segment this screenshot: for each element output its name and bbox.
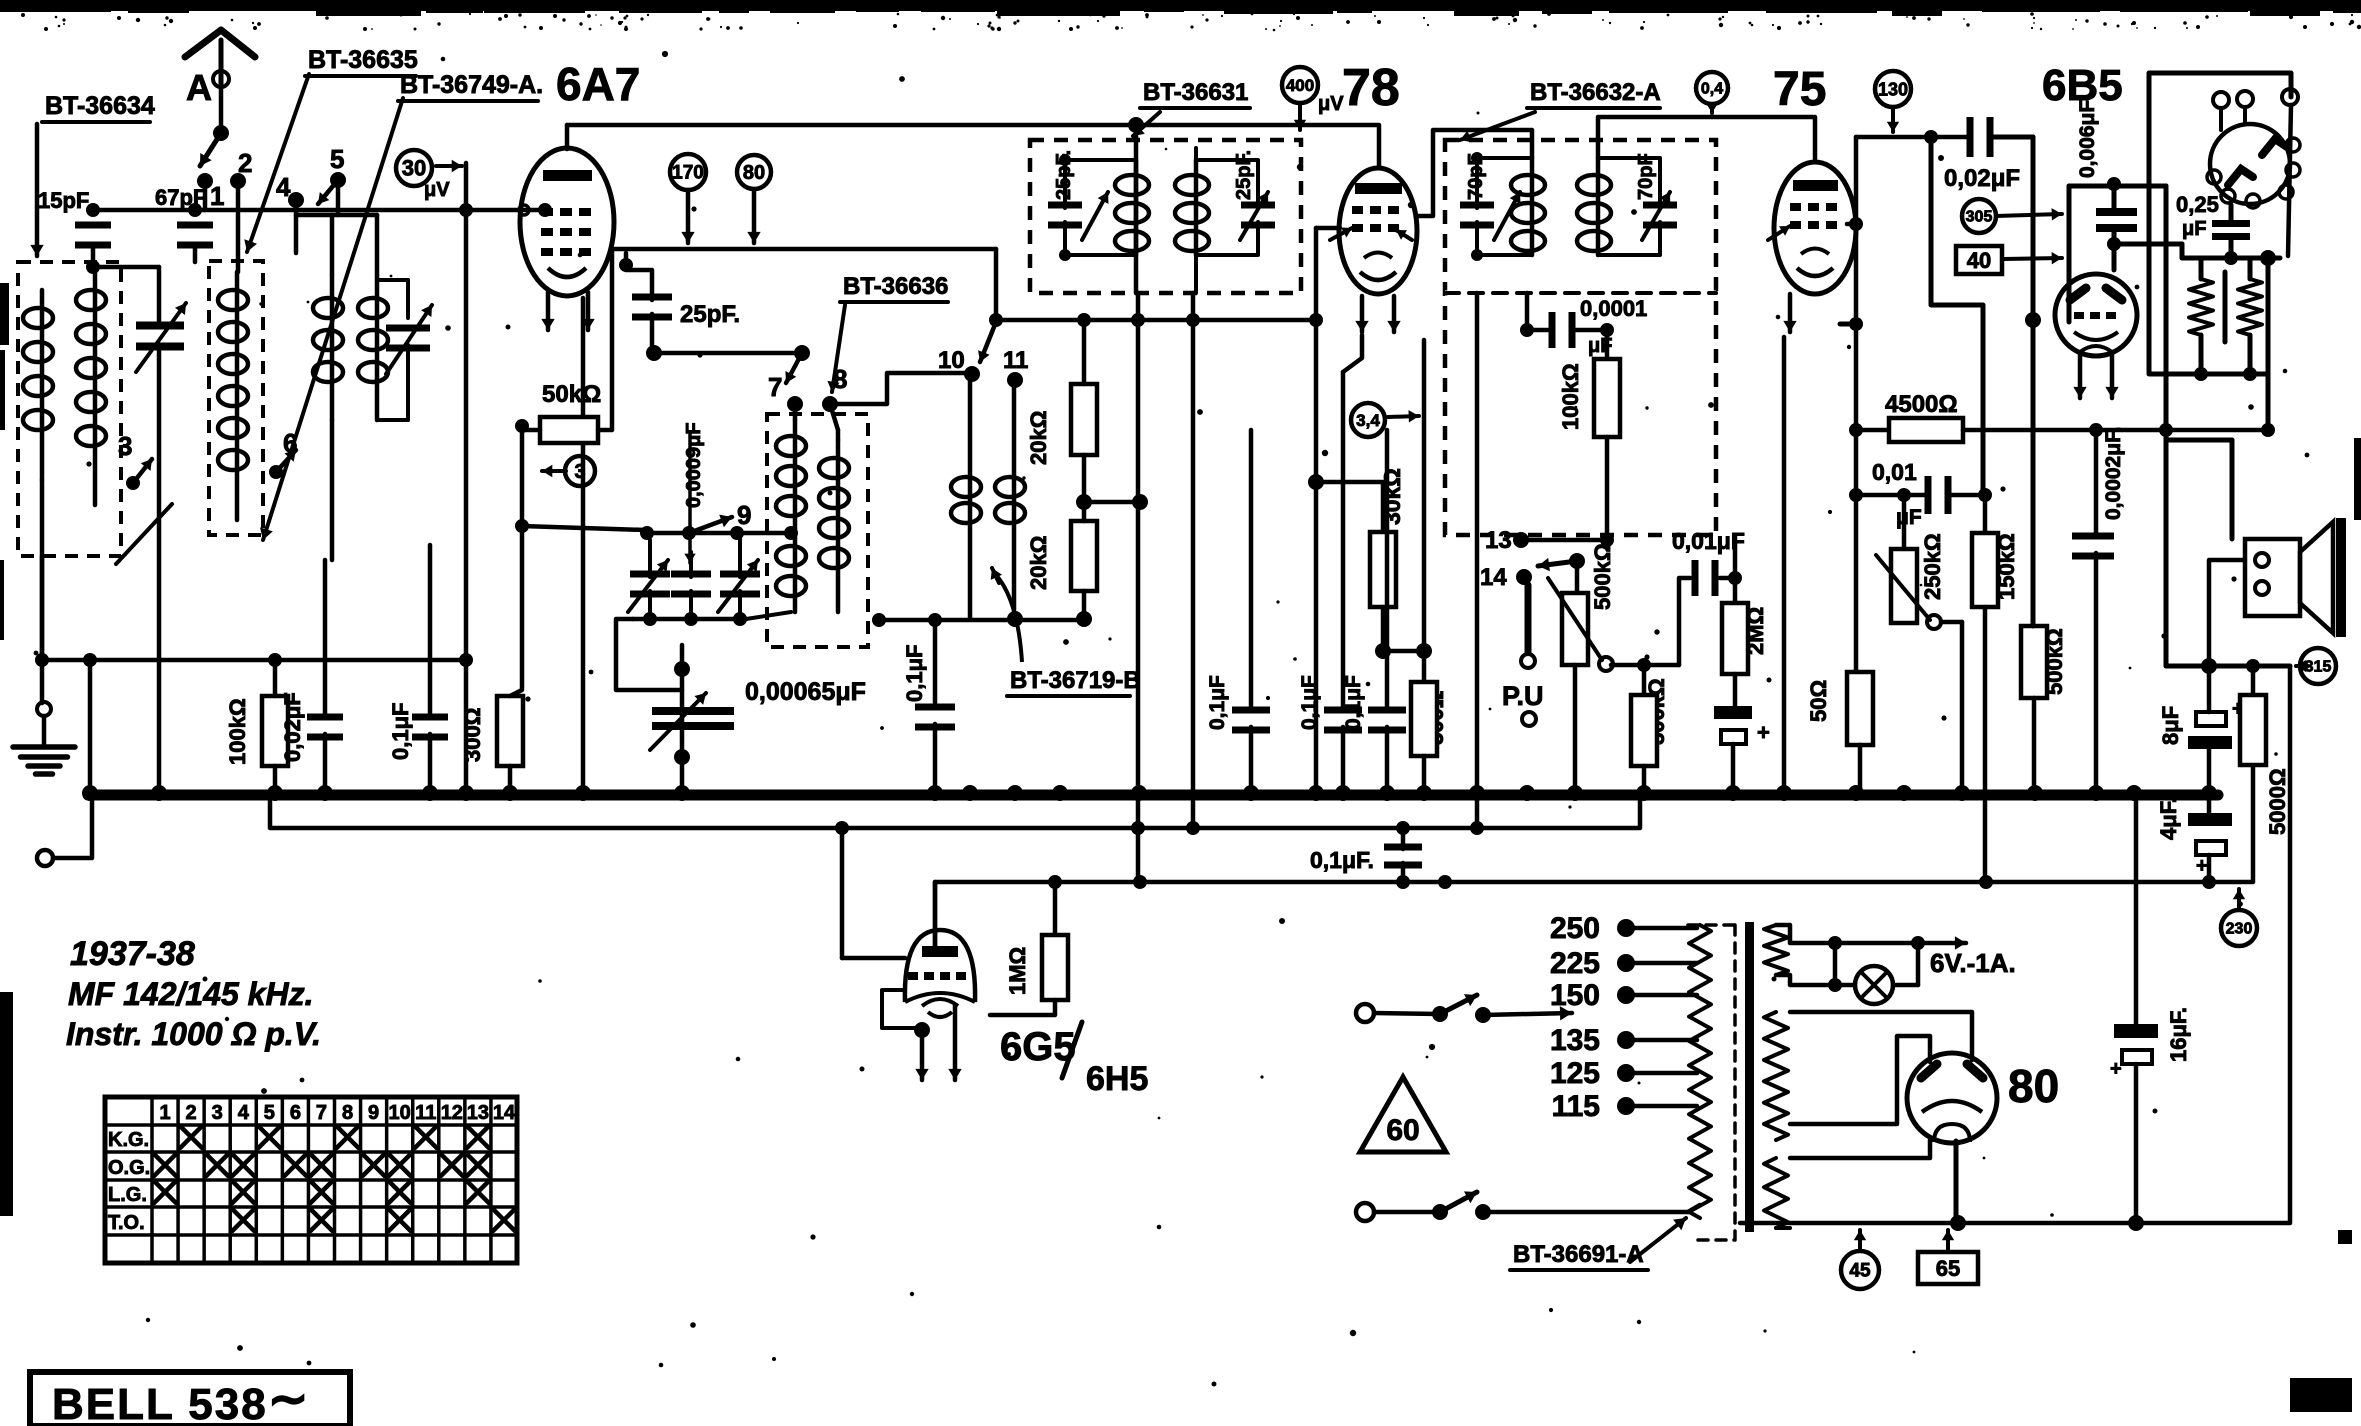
svg-text:9: 9 — [368, 1102, 379, 1124]
svg-text:9: 9 — [737, 500, 751, 530]
svg-text:4500Ω: 4500Ω — [1885, 391, 1958, 418]
svg-text:6H5: 6H5 — [1086, 1060, 1148, 1098]
svg-text:230: 230 — [2226, 921, 2253, 938]
svg-text:7: 7 — [768, 372, 782, 402]
svg-text:50kΩ: 50kΩ — [542, 381, 601, 408]
svg-text:P.U: P.U — [1502, 681, 1544, 711]
svg-text:1: 1 — [210, 181, 224, 211]
svg-text:+: + — [2110, 1058, 2122, 1080]
svg-text:75: 75 — [1773, 63, 1826, 116]
svg-text:15pF: 15pF — [38, 188, 89, 213]
svg-text:250: 250 — [1550, 912, 1600, 945]
svg-text:A: A — [186, 67, 212, 108]
svg-text:4: 4 — [238, 1102, 250, 1124]
svg-text:11: 11 — [1003, 347, 1028, 374]
svg-text:67pF: 67pF — [155, 185, 206, 210]
svg-text:30kΩ: 30kΩ — [1379, 468, 1405, 525]
svg-text:1937-38: 1937-38 — [70, 935, 195, 973]
svg-text:3,4: 3,4 — [1356, 411, 1380, 430]
svg-text:70pF: 70pF — [1635, 153, 1657, 200]
svg-text:250kΩ: 250kΩ — [1920, 533, 1945, 600]
svg-text:60: 60 — [1386, 1114, 1419, 1147]
svg-text:BT-36749-A.: BT-36749-A. — [400, 71, 543, 99]
svg-text:115: 115 — [1552, 1090, 1600, 1123]
svg-text:6V.-1A.: 6V.-1A. — [1930, 948, 2016, 978]
svg-text:170: 170 — [672, 163, 704, 184]
svg-text:BT-36635: BT-36635 — [308, 46, 418, 74]
svg-text:14: 14 — [1480, 564, 1507, 591]
svg-text:L.G.: L.G. — [108, 1184, 147, 1206]
svg-text:65: 65 — [1936, 1256, 1960, 1281]
svg-text:μF: μF — [1896, 506, 1922, 529]
svg-text:1MΩ: 1MΩ — [1005, 947, 1030, 995]
svg-text:1: 1 — [159, 1102, 170, 1124]
svg-text:3: 3 — [118, 431, 132, 461]
svg-text:0,1μF: 0,1μF — [1342, 675, 1365, 730]
svg-text:0,1μF.: 0,1μF. — [1310, 847, 1374, 873]
svg-text:125: 125 — [1550, 1057, 1600, 1090]
svg-text:13: 13 — [467, 1102, 489, 1124]
svg-text:0,01: 0,01 — [1872, 459, 1917, 485]
svg-text:225: 225 — [1550, 947, 1600, 980]
svg-text:500kΩ: 500kΩ — [1590, 543, 1615, 610]
svg-text:8μF: 8μF — [2158, 706, 2183, 745]
svg-text:100kΩ: 100kΩ — [1558, 363, 1583, 430]
svg-text:50Ω: 50Ω — [1806, 680, 1831, 722]
svg-text:BT-36636: BT-36636 — [843, 273, 948, 300]
svg-text:+: + — [1757, 720, 1770, 745]
svg-text:T.O.: T.O. — [108, 1212, 145, 1234]
svg-text:BT-36634: BT-36634 — [45, 92, 155, 120]
svg-text:13: 13 — [1485, 527, 1512, 554]
svg-text:0,0009μF: 0,0009μF — [683, 422, 705, 508]
svg-text:5: 5 — [330, 144, 344, 174]
svg-text:BT-36691-A: BT-36691-A — [1513, 1241, 1644, 1268]
svg-text:30: 30 — [402, 156, 426, 181]
svg-text:20kΩ: 20kΩ — [1026, 411, 1051, 465]
svg-text:100kΩ: 100kΩ — [225, 698, 250, 765]
svg-text:μF: μF — [2182, 218, 2206, 240]
svg-text:16μF.: 16μF. — [2166, 1007, 2191, 1062]
svg-text:BT-36719-B: BT-36719-B — [1010, 667, 1141, 694]
svg-text:0,4: 0,4 — [1701, 81, 1723, 98]
svg-text:5: 5 — [264, 1102, 275, 1124]
svg-text:0,0002μF.: 0,0002μF. — [2102, 427, 2125, 520]
svg-text:40: 40 — [1967, 248, 1991, 273]
svg-text:25pF.: 25pF. — [680, 301, 740, 328]
svg-text:80: 80 — [743, 162, 765, 184]
svg-text:8: 8 — [342, 1102, 353, 1124]
svg-text:BT-36631: BT-36631 — [1143, 79, 1248, 106]
svg-text:25pF.: 25pF. — [1233, 150, 1255, 200]
svg-text:0,00065μF: 0,00065μF — [745, 678, 866, 706]
svg-text:80: 80 — [2008, 1060, 2059, 1112]
svg-text:0,1μF: 0,1μF — [1298, 675, 1321, 730]
svg-text:Instr. 1000 Ω p.V.: Instr. 1000 Ω p.V. — [66, 1016, 321, 1052]
svg-text:BT-36632-A: BT-36632-A — [1530, 79, 1661, 106]
svg-text:O.G.: O.G. — [108, 1157, 150, 1179]
svg-text:5000Ω: 5000Ω — [2265, 768, 2290, 835]
svg-text:4μF.: 4μF. — [2156, 797, 2181, 840]
svg-text:3: 3 — [212, 1102, 223, 1124]
svg-text:135: 135 — [1550, 1024, 1600, 1057]
svg-text:78: 78 — [1342, 59, 1400, 117]
svg-text:7: 7 — [316, 1102, 327, 1124]
svg-text:0,1μF: 0,1μF — [902, 645, 927, 702]
svg-text:0,25: 0,25 — [2176, 192, 2219, 217]
svg-text:0,0001: 0,0001 — [1580, 296, 1647, 321]
svg-text:BELL 538: BELL 538 — [52, 1380, 268, 1426]
svg-text:11: 11 — [415, 1102, 436, 1124]
svg-text:10: 10 — [938, 347, 965, 374]
svg-text:0,1μF: 0,1μF — [1206, 675, 1229, 730]
svg-text:0,02μF: 0,02μF — [1944, 165, 2020, 192]
svg-text:K.G.: K.G. — [108, 1129, 149, 1151]
svg-text:∼: ∼ — [268, 1373, 308, 1426]
svg-text:400: 400 — [1286, 76, 1314, 95]
svg-text:6A7: 6A7 — [556, 58, 640, 110]
svg-text:45: 45 — [1849, 1261, 1871, 1282]
svg-text:10: 10 — [389, 1102, 411, 1124]
svg-text:12: 12 — [441, 1102, 463, 1124]
svg-text:150: 150 — [1550, 979, 1600, 1012]
svg-text:6G5: 6G5 — [1000, 1025, 1076, 1069]
svg-text:0,1μF: 0,1μF — [388, 703, 413, 760]
svg-text:μV: μV — [1318, 93, 1344, 115]
svg-text:20kΩ: 20kΩ — [1026, 536, 1051, 590]
svg-text:6: 6 — [290, 1102, 301, 1124]
svg-text:0,02μF: 0,02μF — [280, 692, 305, 762]
svg-text:2: 2 — [186, 1102, 197, 1124]
svg-text:μV: μV — [424, 179, 450, 201]
svg-text:0,006μF: 0,006μF — [2076, 100, 2099, 178]
svg-text:3: 3 — [574, 461, 585, 483]
svg-text:130: 130 — [1878, 79, 1908, 99]
svg-text:305: 305 — [1966, 209, 1993, 226]
svg-text:14: 14 — [493, 1102, 516, 1124]
svg-text:+: + — [2196, 855, 2208, 877]
svg-text:MF 142/145 kHz.: MF 142/145 kHz. — [68, 976, 313, 1012]
